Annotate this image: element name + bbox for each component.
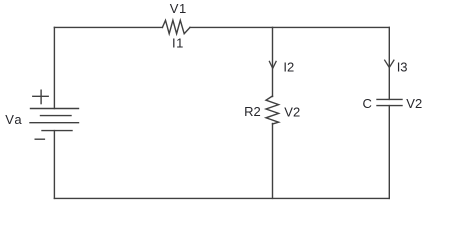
svg-text:V2: V2	[406, 96, 422, 111]
svg-text:R2: R2	[244, 104, 261, 119]
svg-text:I1: I1	[172, 36, 184, 51]
svg-text:I3: I3	[397, 60, 408, 75]
svg-text:V2: V2	[284, 104, 300, 119]
svg-text:C: C	[363, 96, 372, 111]
svg-text:V1: V1	[170, 1, 187, 16]
svg-text:Va: Va	[5, 112, 23, 127]
svg-text:I2: I2	[283, 59, 294, 74]
